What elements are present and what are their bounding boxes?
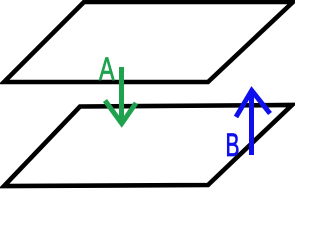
svg-text:B: B <box>226 127 240 163</box>
vector arrow A (green, pointing down) <box>105 67 136 124</box>
vector arrow B (blue, pointing up) <box>236 91 270 156</box>
label A <box>99 51 115 87</box>
top plate (upper parallelogram) <box>4 2 293 82</box>
svg-text:A: A <box>99 51 115 87</box>
bottom plate (lower parallelogram) <box>4 105 292 186</box>
label B <box>226 127 240 163</box>
